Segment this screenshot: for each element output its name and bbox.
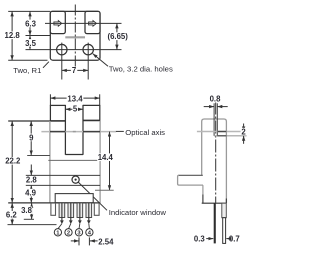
svg-text:13.4: 13.4 xyxy=(67,94,83,103)
side view optical axis line A xyxy=(197,131,247,133)
front view left shoulder xyxy=(50,120,65,122)
extension 3.8 bottom xyxy=(24,218,34,220)
svg-text:3.5: 3.5 xyxy=(25,39,37,48)
top view left tower xyxy=(50,11,65,33)
side view base bottom xyxy=(202,202,227,204)
svg-text:2.54: 2.54 xyxy=(98,238,114,247)
optical axis line (light gray) xyxy=(41,131,116,133)
0.8 wall right line xyxy=(216,103,218,136)
svg-text:22.2: 22.2 xyxy=(5,157,21,166)
top view hole centerline horizontal xyxy=(26,49,122,51)
2.54 tick left xyxy=(78,237,80,245)
terminal number 4 xyxy=(86,229,93,237)
terminal number 2 xyxy=(65,229,72,237)
optical axis dark segment right xyxy=(83,131,100,133)
extension 6.2 bottom (pin tips) xyxy=(8,224,57,226)
indicator window circle xyxy=(72,176,79,183)
front view left prong outer edge xyxy=(49,105,51,122)
pin 4 xyxy=(86,203,92,229)
side view flange top xyxy=(178,174,202,176)
top view vertical centerline xyxy=(74,5,76,71)
dimension 12.8 xyxy=(11,11,13,60)
extension slot bottom (9) xyxy=(27,155,50,157)
top view right hole vertical centerline xyxy=(87,43,89,80)
terminal block xyxy=(55,194,93,203)
dimension (6.65) xyxy=(116,23,118,49)
left tab xyxy=(51,203,56,215)
svg-text:9: 9 xyxy=(29,133,34,142)
front view mid line xyxy=(48,159,101,161)
leader 3.2 holes xyxy=(93,54,108,67)
dimension 0.7 xyxy=(226,238,229,240)
dimension 2 upper arrow xyxy=(243,124,245,132)
top view right hole xyxy=(83,44,93,54)
indicator leader xyxy=(78,182,107,210)
side view right edge dark bottom segment xyxy=(225,199,227,204)
top view left hole xyxy=(57,44,67,54)
pin 1 xyxy=(58,203,65,229)
top view right tower xyxy=(85,11,100,33)
front view left prong top xyxy=(50,104,65,106)
svg-text:(6.65): (6.65) xyxy=(108,32,129,41)
front view right body edge (gray) xyxy=(99,121,101,203)
dimension 2.54 left arrow xyxy=(71,240,79,242)
svg-text:2.8: 2.8 xyxy=(26,175,38,184)
svg-text:14.4: 14.4 xyxy=(98,153,114,162)
svg-text:6.2: 6.2 xyxy=(6,211,18,220)
optical axis dark segment left xyxy=(50,131,65,133)
label 0.8 xyxy=(208,95,221,103)
front view right shoulder xyxy=(83,119,100,121)
right tab xyxy=(94,203,99,215)
extension line slot floor (6.3/3.5) xyxy=(26,35,51,37)
svg-text:2: 2 xyxy=(67,231,70,237)
front view body bottom xyxy=(8,202,100,204)
optical axis label stub xyxy=(116,130,124,132)
front view left slot wall xyxy=(64,105,66,155)
extension 14.4 bottom xyxy=(95,189,114,191)
front view left body edge (gray) xyxy=(49,121,51,203)
dimension 6.2 xyxy=(11,203,13,225)
svg-text:4.9: 4.9 xyxy=(25,189,37,198)
svg-text:Two, R1: Two, R1 xyxy=(13,66,41,75)
top view emitter arrow glyph xyxy=(54,21,62,27)
side view right pin narrow xyxy=(223,218,226,244)
svg-text:2: 2 xyxy=(241,128,246,137)
extension line body top (9/22.2) xyxy=(8,120,50,122)
svg-text:Two, 3.2 dia. holes: Two, 3.2 dia. holes xyxy=(109,64,173,73)
side view lower left edge xyxy=(202,185,204,194)
dimension 9 xyxy=(30,121,32,155)
dimension 5 xyxy=(65,108,83,110)
side view line B xyxy=(214,135,247,137)
dimension 3.5 xyxy=(29,36,31,50)
svg-text:0.8: 0.8 xyxy=(210,95,222,104)
dimension 2.54 right arrow xyxy=(90,240,98,242)
front view slot bottom xyxy=(65,154,83,156)
terminal number 1 xyxy=(54,229,61,237)
svg-text:Optical axis: Optical axis xyxy=(125,128,165,137)
dimension 22.2 xyxy=(11,121,13,203)
extension line bottom (12.8) xyxy=(8,59,47,61)
side view left pin xyxy=(214,203,216,243)
side view right pin shoulder xyxy=(222,203,227,218)
dimension 7 xyxy=(62,69,88,71)
side view flange left+bottom xyxy=(178,175,203,185)
front view right slot wall xyxy=(82,105,84,155)
extension line top (12.8) xyxy=(8,10,50,12)
svg-text:6.3: 6.3 xyxy=(25,19,37,28)
2.54 tick right xyxy=(88,237,90,245)
top view slot floor (gray) xyxy=(65,36,85,38)
top view optical axis line xyxy=(45,22,122,24)
side view tower and body outline xyxy=(202,119,227,203)
0.8 wall left line xyxy=(213,103,215,136)
dimension 6.3 xyxy=(29,11,31,35)
13.4 extension right xyxy=(99,94,101,105)
terminal number 3 xyxy=(75,229,82,237)
svg-text:0.7: 0.7 xyxy=(229,234,240,243)
svg-text:Indicator window: Indicator window xyxy=(109,208,167,217)
svg-text:12.8: 12.8 xyxy=(5,31,21,40)
svg-text:0.3: 0.3 xyxy=(194,234,206,243)
front view flange top line xyxy=(26,174,100,176)
pin 3 xyxy=(77,203,83,229)
top view body outline xyxy=(50,11,100,60)
leader Two R1 xyxy=(43,62,49,68)
front view flange bottom line xyxy=(26,184,100,186)
label 2 xyxy=(241,128,247,135)
top view left hole vertical centerline xyxy=(61,43,63,80)
pin 2 xyxy=(68,203,74,229)
front view right prong outer edge xyxy=(99,105,101,121)
svg-text:5: 5 xyxy=(73,105,78,114)
svg-text:3.8: 3.8 xyxy=(21,206,33,215)
dimension 14.4 xyxy=(109,132,111,191)
dimension 13.4 xyxy=(50,97,99,99)
optical axis center dash xyxy=(73,131,76,133)
dimension 2 lower arrow xyxy=(243,136,245,144)
front view right prong top xyxy=(83,104,100,106)
dimension 2.8 text xyxy=(25,176,37,183)
side view centerline xyxy=(215,102,217,204)
dimension 3.8 xyxy=(31,203,33,219)
13.4 extension left xyxy=(49,94,51,105)
top view detector arrow glyph xyxy=(89,21,97,27)
dimension 2.8 upper arrow xyxy=(30,165,32,176)
dimension 0.8 left arrow xyxy=(204,106,214,108)
svg-text:7: 7 xyxy=(72,66,76,75)
dimension 4.9 xyxy=(30,185,32,202)
dimension 0.8 right arrow xyxy=(217,106,227,108)
